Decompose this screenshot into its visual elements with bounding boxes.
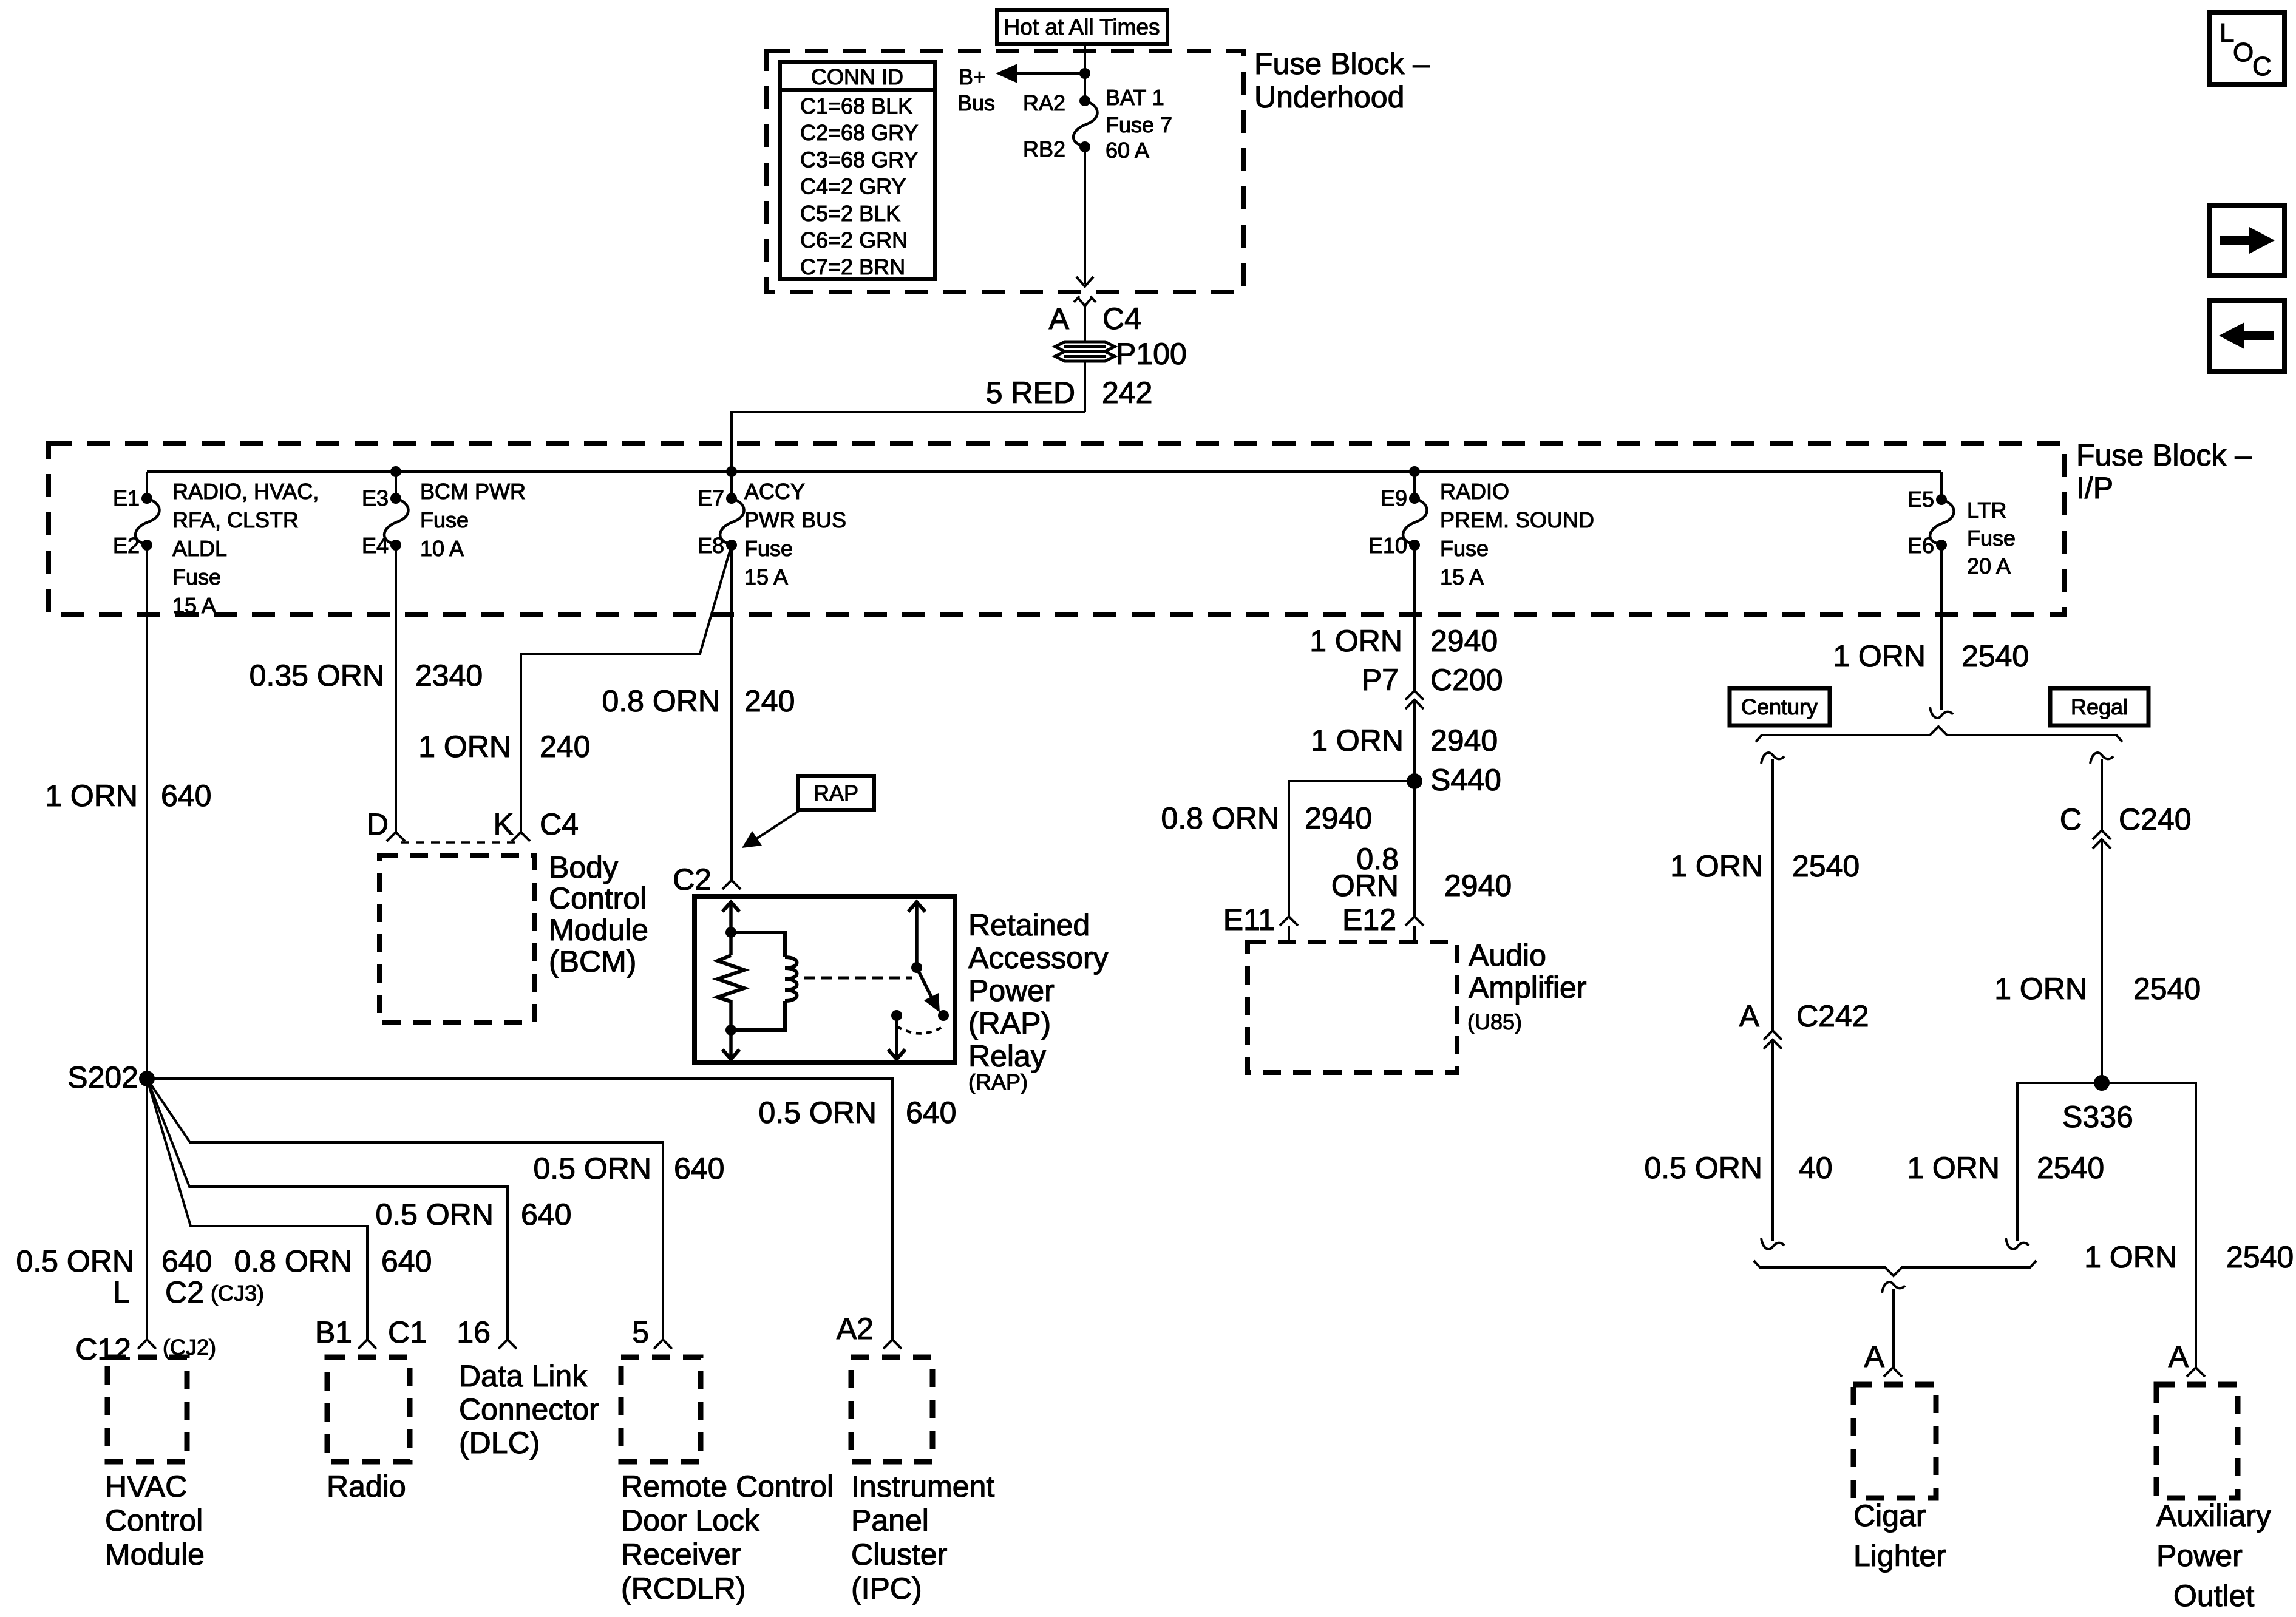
svg-text:2540: 2540 [2226,1240,2294,1274]
svg-text:40: 40 [1799,1151,1833,1185]
svg-text:Fuse Block –: Fuse Block – [1254,47,1430,81]
svg-text:E7: E7 [698,486,724,510]
svg-text:Power: Power [968,974,1055,1008]
svg-text:15 A: 15 A [744,564,788,589]
svg-text:C: C [2060,802,2082,836]
svg-text:BAT 1: BAT 1 [1106,85,1164,110]
svg-text:C4: C4 [540,807,579,841]
svg-text:Century: Century [1741,694,1818,719]
svg-text:10 A: 10 A [420,536,464,561]
svg-text:5 RED: 5 RED [986,376,1075,410]
svg-text:C240: C240 [2119,802,2192,836]
svg-text:P100: P100 [1116,337,1187,371]
svg-text:C5=2 BLK: C5=2 BLK [800,201,900,226]
svg-text:(IPC): (IPC) [851,1571,922,1605]
svg-text:640: 640 [161,779,211,813]
svg-text:E4: E4 [362,533,389,558]
svg-text:2540: 2540 [1961,639,2029,673]
svg-text:C12: C12 [75,1332,131,1366]
svg-text:Regal: Regal [2071,694,2128,719]
svg-text:RA2: RA2 [1023,90,1065,115]
svg-text:640: 640 [161,1244,212,1278]
svg-text:0.5 ORN: 0.5 ORN [16,1244,134,1278]
svg-text:C6=2 GRN: C6=2 GRN [800,228,908,253]
svg-text:2540: 2540 [2037,1151,2104,1185]
svg-text:ACCY: ACCY [744,479,805,504]
svg-text:Auxiliary: Auxiliary [2156,1499,2271,1533]
svg-text:1 ORN: 1 ORN [1907,1151,2000,1185]
svg-text:A: A [1864,1340,1885,1374]
svg-text:2540: 2540 [1792,849,1860,883]
svg-text:ALDL: ALDL [172,536,227,561]
svg-text:2940: 2940 [1430,624,1498,658]
svg-text:A: A [1049,302,1070,336]
svg-text:Relay: Relay [968,1039,1046,1073]
svg-text:2540: 2540 [2133,972,2201,1006]
svg-text:16: 16 [457,1315,491,1349]
svg-text:E9: E9 [1381,486,1407,510]
svg-text:640: 640 [381,1244,432,1278]
svg-text:RFA, CLSTR: RFA, CLSTR [172,507,299,532]
svg-text:Underhood: Underhood [1254,80,1404,114]
svg-text:Module: Module [105,1537,205,1571]
svg-text:C3=68 GRY: C3=68 GRY [800,147,918,172]
svg-text:C2: C2 [673,863,712,897]
svg-text:RADIO: RADIO [1440,479,1509,504]
svg-text:640: 640 [906,1096,956,1130]
svg-text:A: A [1739,999,1760,1033]
svg-text:RB2: RB2 [1023,137,1065,161]
svg-text:2340: 2340 [415,659,483,693]
svg-text:E10: E10 [1368,533,1407,558]
svg-text:C: C [2252,52,2272,81]
svg-text:E5: E5 [1907,487,1934,512]
svg-text:CONN ID: CONN ID [811,64,903,89]
svg-text:Fuse: Fuse [172,564,221,589]
svg-text:B+: B+ [959,64,986,89]
svg-text:L: L [113,1275,130,1309]
svg-text:PWR BUS: PWR BUS [744,507,846,532]
svg-text:Connector: Connector [459,1392,599,1426]
svg-text:Cluster: Cluster [851,1537,947,1571]
svg-text:E2: E2 [113,533,140,558]
svg-text:Power: Power [2156,1539,2243,1573]
svg-text:640: 640 [674,1151,724,1185]
svg-text:Receiver: Receiver [621,1537,741,1571]
svg-text:(DLC): (DLC) [459,1426,540,1460]
svg-text:Fuse: Fuse [420,507,469,532]
svg-text:Cigar: Cigar [1853,1499,1926,1533]
svg-text:I/P: I/P [2076,471,2113,505]
svg-text:C200: C200 [1430,663,1503,697]
svg-text:0.8 ORN: 0.8 ORN [602,684,720,718]
svg-text:Door Lock: Door Lock [621,1503,760,1537]
svg-text:Fuse Block –: Fuse Block – [2076,438,2252,472]
svg-text:C7=2 BRN: C7=2 BRN [800,254,905,279]
svg-text:E3: E3 [362,486,389,510]
svg-text:L: L [2220,18,2234,48]
svg-text:15 A: 15 A [1440,564,1484,589]
svg-text:2940: 2940 [1305,801,1372,835]
svg-text:Fuse: Fuse [744,536,793,561]
svg-text:Body: Body [549,850,618,884]
svg-text:5: 5 [632,1315,649,1349]
svg-text:1 ORN: 1 ORN [45,779,138,813]
svg-text:Hot at All Times: Hot at All Times [1004,15,1160,39]
svg-text:C1: C1 [388,1315,427,1349]
svg-text:O: O [2233,38,2254,67]
svg-text:0.5 ORN: 0.5 ORN [533,1151,651,1185]
svg-text:E11: E11 [1223,903,1275,937]
svg-text:20 A: 20 A [1967,554,2011,578]
svg-text:1 ORN: 1 ORN [418,730,511,764]
svg-text:1 ORN: 1 ORN [1311,724,1404,758]
svg-text:Lighter: Lighter [1853,1539,1946,1573]
svg-text:(RAP): (RAP) [968,1070,1028,1094]
svg-text:1 ORN: 1 ORN [2084,1240,2177,1274]
svg-text:C2: C2 [165,1275,204,1309]
svg-text:0.35 ORN: 0.35 ORN [250,659,384,693]
svg-text:Control: Control [105,1503,203,1537]
svg-text:Control: Control [549,881,647,915]
svg-text:240: 240 [744,684,795,718]
svg-text:1 ORN: 1 ORN [1670,849,1763,883]
svg-text:Remote Control: Remote Control [621,1470,834,1503]
svg-text:S440: S440 [1430,763,1501,797]
svg-text:242: 242 [1102,376,1152,410]
svg-text:Data Link: Data Link [459,1359,588,1393]
svg-text:LTR: LTR [1967,498,2006,523]
svg-text:D: D [367,807,389,841]
svg-text:ORN: ORN [1331,869,1399,903]
svg-text:PREM. SOUND: PREM. SOUND [1440,507,1594,532]
svg-text:C1=68 BLK: C1=68 BLK [800,93,912,118]
svg-text:RADIO, HVAC,: RADIO, HVAC, [172,479,319,504]
svg-text:K: K [494,807,514,841]
svg-text:HVAC: HVAC [105,1470,187,1503]
svg-text:S202: S202 [67,1060,138,1094]
svg-text:Module: Module [549,913,648,947]
svg-text:C4: C4 [1102,302,1141,336]
svg-text:(U85): (U85) [1467,1009,1522,1034]
svg-text:0.5 ORN: 0.5 ORN [1644,1151,1762,1185]
svg-text:Amplifier: Amplifier [1469,971,1586,1005]
svg-text:0.8 ORN: 0.8 ORN [234,1244,352,1278]
svg-text:B1: B1 [315,1315,352,1349]
svg-text:E8: E8 [698,533,724,558]
svg-text:BCM PWR: BCM PWR [420,479,526,504]
svg-text:240: 240 [540,730,590,764]
svg-text:Fuse: Fuse [1440,536,1489,561]
svg-text:15 A: 15 A [172,593,216,618]
svg-text:Instrument: Instrument [851,1470,994,1503]
svg-text:C242: C242 [1796,999,1869,1033]
svg-text:1 ORN: 1 ORN [1833,639,1926,673]
svg-text:RAP: RAP [813,781,858,805]
svg-text:C2=68 GRY: C2=68 GRY [800,120,918,145]
svg-text:E12: E12 [1342,903,1396,937]
svg-text:P7: P7 [1362,663,1399,697]
svg-text:Panel: Panel [851,1503,929,1537]
svg-text:2940: 2940 [1444,869,1512,903]
svg-text:0.8 ORN: 0.8 ORN [1161,801,1279,835]
svg-text:Outlet: Outlet [2173,1579,2255,1613]
svg-text:2940: 2940 [1430,724,1498,758]
svg-text:1 ORN: 1 ORN [1994,972,2087,1006]
svg-text:(RCDLR): (RCDLR) [621,1571,746,1605]
svg-text:Radio: Radio [327,1470,406,1503]
svg-text:(CJ3): (CJ3) [211,1281,264,1306]
svg-text:Fuse 7: Fuse 7 [1106,112,1172,137]
svg-text:640: 640 [521,1198,571,1232]
svg-text:(BCM): (BCM) [549,944,636,978]
svg-text:1 ORN: 1 ORN [1309,624,1402,658]
svg-text:S336: S336 [2062,1100,2133,1134]
svg-text:0.5 ORN: 0.5 ORN [758,1096,877,1130]
svg-text:C4=2 GRY: C4=2 GRY [800,174,906,199]
svg-text:60 A: 60 A [1106,138,1149,163]
svg-text:0.5 ORN: 0.5 ORN [375,1198,494,1232]
svg-text:Bus: Bus [957,90,995,115]
svg-text:E1: E1 [113,486,140,510]
svg-text:A: A [2169,1340,2189,1374]
svg-text:Accessory: Accessory [968,941,1109,975]
svg-text:(RAP): (RAP) [968,1006,1051,1040]
svg-text:Audio: Audio [1469,938,1546,972]
svg-text:A2: A2 [837,1312,874,1346]
svg-text:E6: E6 [1907,533,1934,558]
svg-text:Fuse: Fuse [1967,526,2016,551]
svg-text:Retained: Retained [968,908,1090,942]
